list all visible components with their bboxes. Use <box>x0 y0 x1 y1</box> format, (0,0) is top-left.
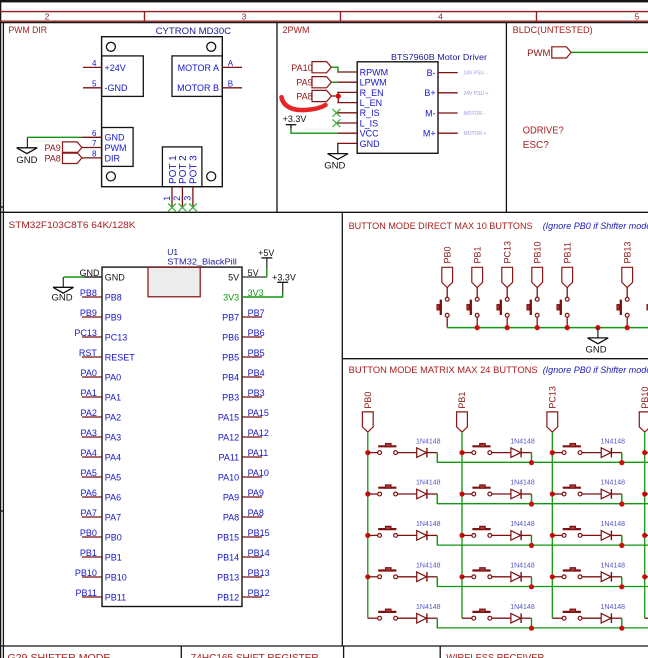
wire: matrix column PB0 <box>367 432 369 618</box>
junction (matrix row bus 5) <box>529 626 534 631</box>
wire: direct button common bus <box>447 327 648 329</box>
junction (matrix col 4 row 1) <box>642 450 647 455</box>
wire PWM to right edge <box>571 51 648 53</box>
no-connect X pin3 <box>189 204 197 212</box>
wire diode to row bus (r4c2) <box>521 576 531 578</box>
svg-text:PB10: PB10 <box>640 387 648 409</box>
diode 1N4148 (r5c2) <box>511 613 521 623</box>
junction (matrix col 4 row 3) <box>642 533 647 538</box>
wire diode to row bus (r3c1) <box>427 534 437 536</box>
section border: left edge <box>2 22 4 658</box>
svg-text:PB0: PB0 <box>105 532 122 542</box>
svg-text:PB4: PB4 <box>248 368 265 378</box>
junction (matrix col 1 row 2) <box>365 491 370 496</box>
wire switch to diode (r5c1) <box>398 617 417 619</box>
wire diode to row bus (r5c2) <box>521 617 531 619</box>
no-connect X R_IS <box>333 109 341 117</box>
pin PA9 (right row 11) <box>242 496 262 498</box>
svg-text:PA12: PA12 <box>218 432 239 442</box>
pin B+ <box>438 92 458 94</box>
wire diode to row bus (r3c3) <box>611 534 621 536</box>
svg-text:PB8: PB8 <box>105 292 122 302</box>
svg-text:R_IS: R_IS <box>360 108 380 118</box>
pin PB14 (right row 14) <box>242 556 262 558</box>
junction (matrix col 3 row 1) <box>550 450 555 455</box>
diode 1N4148 (r4c3) <box>601 572 611 582</box>
svg-text:RST: RST <box>79 348 98 358</box>
junction (direct bus) <box>625 325 630 330</box>
svg-text:1N4148: 1N4148 <box>416 521 441 528</box>
svg-text:PA8: PA8 <box>296 91 312 101</box>
frame tick between zones 3/4 <box>340 12 342 22</box>
svg-text:BTS7960B Motor Driver: BTS7960B Motor Driver <box>391 52 487 62</box>
pin 8 (DIR) <box>82 157 102 159</box>
svg-text:PA0: PA0 <box>105 372 121 382</box>
wire PA8 to R_EN/L_EN tie <box>331 92 338 102</box>
svg-text:PB14: PB14 <box>217 552 239 562</box>
svg-text:RESET: RESET <box>105 352 136 362</box>
pin RESET (left row 4) <box>82 356 102 358</box>
svg-text:PA6: PA6 <box>105 492 121 502</box>
junction (matrix col 1 row 4) <box>365 574 370 579</box>
junction (matrix col 2 row 1) <box>459 450 464 455</box>
pin PB4 (right row 5) <box>242 376 262 378</box>
wire switch to bus PB0 <box>446 317 448 327</box>
wire diode to row bus (r2c3) <box>611 493 621 495</box>
svg-text:PB13: PB13 <box>217 572 239 582</box>
svg-text:BLDC(UNTESTED): BLDC(UNTESTED) <box>513 25 593 35</box>
diode 1N4148 (r4c1) <box>417 572 427 582</box>
wire switch to diode (r4c2) <box>492 576 511 578</box>
section divider horizontal top/middle <box>0 211 648 213</box>
wire 3V3 to +3.3V <box>242 293 283 297</box>
svg-text:(Ignore PB0 if Shifter mode us: (Ignore PB0 if Shifter mode used) <box>543 365 648 375</box>
svg-text:PB12: PB12 <box>248 588 270 598</box>
svg-text:M+: M+ <box>423 129 436 139</box>
junction PA8/R_EN/L_EN <box>336 94 341 99</box>
svg-text:B-: B- <box>427 68 436 78</box>
switch SW (direct PB11) <box>565 297 569 301</box>
svg-text:2: 2 <box>45 12 50 22</box>
svg-text:PB5: PB5 <box>222 352 239 362</box>
svg-text:PWM: PWM <box>527 48 550 59</box>
diode 1N4148 (r4c2) <box>511 572 521 582</box>
frame tick between zones 2/3 <box>144 12 146 22</box>
pin PB11 (left row 16) <box>82 596 102 598</box>
svg-text:5: 5 <box>92 79 97 88</box>
svg-text:PA10: PA10 <box>291 63 312 73</box>
mounting hole bottom-right <box>207 172 216 181</box>
svg-text:PB15: PB15 <box>217 532 239 542</box>
svg-text:PA5: PA5 <box>105 472 121 482</box>
wire label to switch PB1 <box>476 288 478 298</box>
svg-text:1N4148: 1N4148 <box>601 480 626 487</box>
svg-text:1N4148: 1N4148 <box>510 480 535 487</box>
svg-text:GND: GND <box>105 272 126 282</box>
switch SW (direct PB13) <box>625 297 629 301</box>
wire: matrix column PB10 <box>644 432 646 618</box>
wire label to switch PB11 <box>566 288 568 298</box>
pin 7 (PWM) <box>82 147 102 149</box>
wire switch to bus PB10 <box>536 317 538 327</box>
pin PB1 (left row 14) <box>82 556 102 558</box>
svg-text:PC13: PC13 <box>502 241 512 264</box>
svg-text:PA6: PA6 <box>81 488 97 498</box>
junction (matrix row bus 4) <box>619 584 624 589</box>
svg-text:PB10: PB10 <box>75 568 97 578</box>
diode 1N4148 (r2c1) <box>417 489 427 499</box>
svg-text:+3.3V: +3.3V <box>283 114 307 124</box>
pin R_EN <box>337 91 357 93</box>
svg-text:PB14: PB14 <box>248 548 270 558</box>
svg-text:PB11: PB11 <box>105 592 126 602</box>
wire: matrix column PC13 <box>551 432 553 618</box>
ground symbol (BTS7960B) <box>328 154 349 160</box>
svg-text:GND: GND <box>360 139 381 149</box>
wire switch to bus PC13 <box>506 317 508 327</box>
wire diode to row bus (r4c3) <box>611 576 621 578</box>
pin PB15 (right row 13) <box>242 536 262 538</box>
svg-text:PA9: PA9 <box>296 78 312 88</box>
wire switch to diode (r3c3) <box>582 534 601 536</box>
section divider bottom vertical 2 <box>439 646 441 658</box>
mounting hole top-right <box>207 42 216 51</box>
svg-text:24V PSU +: 24V PSU + <box>464 91 489 97</box>
svg-text:PB7: PB7 <box>222 312 239 322</box>
wire switch to bus PB1 <box>476 317 478 327</box>
svg-text:PB13: PB13 <box>622 241 632 263</box>
svg-text:PB0: PB0 <box>442 246 452 263</box>
diode 1N4148 (r3c3) <box>601 531 611 541</box>
svg-text:PB7: PB7 <box>248 308 265 318</box>
svg-text:1N4148: 1N4148 <box>416 480 441 487</box>
mounting hole top-left <box>106 42 115 51</box>
diode 1N4148 (r1c2) <box>511 448 521 458</box>
svg-text:1N4148: 1N4148 <box>510 604 535 611</box>
no-connect X pin1 <box>168 204 176 212</box>
svg-text:3: 3 <box>242 12 247 22</box>
section divider bottom vertical mid <box>343 646 345 658</box>
svg-text:ODRIVE?: ODRIVE? <box>523 126 564 137</box>
svg-text:PA1: PA1 <box>105 392 121 402</box>
pin PB3 (right row 6) <box>242 396 262 398</box>
svg-text:7: 7 <box>92 139 97 148</box>
junction (matrix row bus 3) <box>529 543 534 548</box>
wire diode to row bus (r1c3) <box>611 452 621 454</box>
svg-text:PWM DIR: PWM DIR <box>9 25 48 35</box>
junction (matrix row bus 1) <box>529 460 534 465</box>
wire switch to diode (r3c1) <box>398 534 417 536</box>
left frame tick A <box>0 206 3 208</box>
junction (matrix row bus 2) <box>529 501 534 506</box>
pin VCC <box>337 132 357 134</box>
svg-text:CYTRON MD30C: CYTRON MD30C <box>156 26 232 37</box>
svg-text:MOTOR +: MOTOR + <box>464 131 487 137</box>
junction (matrix col 4 row 4) <box>642 574 647 579</box>
motor driver BTS7960B body <box>357 62 438 154</box>
svg-text:2PWM: 2PWM <box>283 25 310 35</box>
wire switch to diode (r4c1) <box>398 576 417 578</box>
section divider PWM DIR / 2PWM <box>276 23 278 213</box>
junction (matrix col 2 row 4) <box>459 574 464 579</box>
junction (direct bus) <box>565 325 570 330</box>
pin PA15 (right row 7) <box>242 416 262 418</box>
svg-text:RPWM: RPWM <box>360 67 389 77</box>
svg-text:PA2: PA2 <box>81 408 97 418</box>
junction (matrix row bus 4) <box>529 584 534 589</box>
pin PA4 (left row 9) <box>82 456 102 458</box>
svg-text:BUTTON MODE MATRIX MAX 24 BUTT: BUTTON MODE MATRIX MAX 24 BUTTONS <box>349 365 538 375</box>
pin PA2 (left row 7) <box>82 416 102 418</box>
wire switch to diode (r4c3) <box>582 576 601 578</box>
pin PA1 (left row 6) <box>82 396 102 398</box>
svg-text:L_IS: L_IS <box>360 118 379 128</box>
svg-text:+3.3V: +3.3V <box>272 272 296 282</box>
svg-text:STM32F103C8T6 64K/128K: STM32F103C8T6 64K/128K <box>9 220 136 230</box>
svg-text:PA7: PA7 <box>81 508 97 518</box>
svg-text:MOTOR B: MOTOR B <box>177 83 219 93</box>
svg-text:PA12: PA12 <box>248 428 269 438</box>
mounting hole bottom-left <box>106 172 115 181</box>
pin LPWM <box>337 81 357 83</box>
svg-text:24V PSU -: 24V PSU - <box>464 71 488 77</box>
svg-text:PB11: PB11 <box>562 242 572 263</box>
wire label to switch PB10 <box>536 288 538 298</box>
pin PC13 (left row 3) <box>82 336 102 338</box>
svg-text:1: 1 <box>162 196 172 201</box>
svg-text:LPWM: LPWM <box>360 78 387 88</box>
svg-text:74HC165 SHIFT REGISTER: 74HC165 SHIFT REGISTER <box>191 653 319 658</box>
svg-text:PA4: PA4 <box>105 452 121 462</box>
junction (direct bus) <box>595 325 600 330</box>
pin PA10 (right row 10) <box>242 476 262 478</box>
svg-text:(Ignore PB0 if Shifter mode us: (Ignore PB0 if Shifter mode used) <box>543 221 648 231</box>
pin PA3 (left row 8) <box>82 436 102 438</box>
pin PB0 (left row 13) <box>82 536 102 538</box>
svg-text:POT 3: POT 3 <box>188 155 199 184</box>
wire switch to diode (r2c3) <box>582 493 601 495</box>
power terminal block +24V/-GND <box>102 56 144 97</box>
svg-text:PA9: PA9 <box>44 143 60 153</box>
svg-text:PA11: PA11 <box>248 448 269 458</box>
svg-text:PB9: PB9 <box>105 312 122 322</box>
pin A (MOTOR A) <box>222 66 242 68</box>
wire: matrix row bus 5 <box>437 627 648 629</box>
svg-text:PB12: PB12 <box>217 592 239 602</box>
svg-text:PA9: PA9 <box>223 492 239 502</box>
pin PB13 (right row 15) <box>242 576 262 578</box>
switch SW (matrix r5c2) <box>462 617 472 619</box>
svg-text:PB9: PB9 <box>80 308 97 318</box>
svg-text:GND: GND <box>16 155 37 166</box>
junction (matrix col 4 row 2) <box>642 491 647 496</box>
pin PA5 (left row 10) <box>82 476 102 478</box>
motor terminal block MOTOR A/MOTOR B <box>172 56 222 97</box>
diode 1N4148 (r1c3) <box>601 448 611 458</box>
svg-text:3V3: 3V3 <box>223 292 239 302</box>
left frame tick B <box>0 510 3 512</box>
svg-text:1N4148: 1N4148 <box>601 438 626 445</box>
diode 1N4148 (r5c1) <box>417 613 427 623</box>
wire: matrix row bus 3 <box>437 544 648 546</box>
svg-text:5: 5 <box>635 12 640 22</box>
wire diode to row bus (r2c2) <box>521 493 531 495</box>
svg-text:-GND: -GND <box>105 83 128 93</box>
junction (matrix col 1 row 1) <box>365 450 370 455</box>
svg-text:1N4148: 1N4148 <box>601 604 626 611</box>
motor driver CYTRON MD30C body <box>102 37 223 187</box>
wire 5V to +5V <box>242 276 267 278</box>
svg-text:PB5: PB5 <box>248 348 265 358</box>
svg-text:GND: GND <box>51 293 72 304</box>
svg-text:PB4: PB4 <box>222 372 239 382</box>
wire: matrix row bus 1 <box>437 461 648 463</box>
svg-text:PA8: PA8 <box>44 153 60 163</box>
junction (matrix col 3 row 2) <box>550 491 555 496</box>
junction (matrix col 2 row 2) <box>459 491 464 496</box>
switch SW (direct PB1) <box>475 297 479 301</box>
svg-text:+24V: +24V <box>105 63 126 73</box>
svg-text:PA3: PA3 <box>105 432 121 442</box>
svg-text:WIRELESS RECEIVER: WIRELESS RECEIVER <box>446 653 544 658</box>
diode 1N4148 (r3c1) <box>417 531 427 541</box>
svg-text:MOTOR A: MOTOR A <box>178 63 219 73</box>
wire switch to diode (r1c1) <box>398 452 417 454</box>
svg-text:PC13: PC13 <box>105 332 128 342</box>
pin 2 (POT2) <box>181 187 183 208</box>
svg-text:PA4: PA4 <box>81 448 97 458</box>
pin B- <box>438 72 458 74</box>
wire switch to bus PB13 <box>626 317 628 327</box>
pin 6 (GND) <box>82 136 102 138</box>
svg-text:PA15: PA15 <box>248 408 269 418</box>
svg-text:ESC?: ESC? <box>523 140 550 151</box>
svg-text:BUTTON MODE DIRECT MAX 10 BUTT: BUTTON MODE DIRECT MAX 10 BUTTONS <box>349 221 533 231</box>
svg-text:PA2: PA2 <box>105 412 121 422</box>
svg-text:GND: GND <box>324 160 345 171</box>
svg-text:1N4148: 1N4148 <box>416 604 441 611</box>
svg-text:R_EN: R_EN <box>360 88 384 98</box>
mcu module body U1 <box>102 267 242 606</box>
svg-text:PC13: PC13 <box>548 386 558 409</box>
power symbol +5V <box>261 257 272 259</box>
svg-text:1N4148: 1N4148 <box>601 563 626 570</box>
ground symbol (direct bus) <box>588 338 609 344</box>
pin 4 (+24V) <box>83 66 102 68</box>
switch SW (matrix r5c4) <box>645 617 648 619</box>
junction (matrix col 3 row 3) <box>550 533 555 538</box>
diode 1N4148 (r3c2) <box>511 531 521 541</box>
wire diode to row bus (r3c2) <box>521 534 531 536</box>
junction (direct bus) <box>475 325 480 330</box>
pin 3 (POT3) <box>192 187 194 208</box>
switch SW (direct PB0) <box>445 297 449 301</box>
svg-text:4: 4 <box>438 12 443 22</box>
svg-text:DIR: DIR <box>105 153 121 163</box>
wire switch to diode (r2c2) <box>492 493 511 495</box>
svg-text:GND: GND <box>80 268 101 278</box>
junction (matrix row bus 5) <box>619 626 624 631</box>
no-connect X pin2 <box>179 204 187 212</box>
pin M- <box>438 112 458 114</box>
svg-text:6: 6 <box>92 129 97 138</box>
pin PA8 (right row 12) <box>242 516 262 518</box>
annotation red scribble <box>282 97 326 110</box>
svg-text:PA0: PA0 <box>81 368 97 378</box>
svg-text:B: B <box>228 79 233 88</box>
wire: matrix row bus 4 <box>437 586 648 588</box>
svg-text:1N4148: 1N4148 <box>416 438 441 445</box>
wire switch to bus PB11 <box>566 317 568 327</box>
diode 1N4148 (r1c1) <box>417 448 427 458</box>
pin PA0 (left row 5) <box>82 376 102 378</box>
svg-text:PB1: PB1 <box>80 548 97 558</box>
svg-text:1N4148: 1N4148 <box>416 563 441 570</box>
pin PA12 (right row 8) <box>242 436 262 438</box>
svg-text:PB1: PB1 <box>457 392 467 409</box>
junction (matrix row bus 3) <box>619 543 624 548</box>
wire switch to diode (r2c1) <box>398 493 417 495</box>
section border: top edge <box>0 22 648 24</box>
junction (matrix col 3 row 4) <box>550 574 555 579</box>
svg-text:G29 SHIFTER MODE: G29 SHIFTER MODE <box>8 653 111 658</box>
ground symbol (Cytron) <box>17 148 38 154</box>
svg-text:PA10: PA10 <box>218 472 239 482</box>
wire diode to row bus (r1c1) <box>427 452 437 454</box>
switch SW (direct PB10) <box>535 297 539 301</box>
wire label to switch PB0 <box>446 288 448 298</box>
svg-text:PB11: PB11 <box>76 588 97 598</box>
section divider 2PWM / BLDC <box>505 23 507 213</box>
pin PB5 (right row 4) <box>242 356 262 358</box>
svg-text:PB6: PB6 <box>248 328 265 338</box>
svg-text:+5V: +5V <box>258 248 274 258</box>
pin B (MOTOR B) <box>222 87 242 89</box>
svg-text:PB13: PB13 <box>248 568 270 578</box>
wire bus to ground <box>597 328 599 338</box>
frame tick between zones 4/5 <box>536 12 538 22</box>
svg-text:PA11: PA11 <box>219 452 240 462</box>
svg-text:PWM: PWM <box>105 143 127 153</box>
svg-text:5V: 5V <box>248 268 259 278</box>
junction (matrix col 2 row 3) <box>459 533 464 538</box>
power symbol +3.3V <box>277 281 288 283</box>
wire label to switch PB13 <box>626 288 628 298</box>
svg-text:PB3: PB3 <box>222 392 239 402</box>
pin 1 (POT1) <box>171 187 173 208</box>
svg-text:PB0: PB0 <box>80 528 97 538</box>
svg-text:PA9: PA9 <box>248 488 264 498</box>
wire: matrix column PB1 <box>461 432 463 618</box>
svg-text:PB3: PB3 <box>248 388 265 398</box>
svg-text:PA8: PA8 <box>248 508 264 518</box>
pin PA7 (left row 12) <box>82 516 102 518</box>
diode 1N4148 (r2c2) <box>511 489 521 499</box>
svg-text:1N4148: 1N4148 <box>510 438 535 445</box>
svg-text:PB6: PB6 <box>222 332 239 342</box>
svg-text:1N4148: 1N4148 <box>601 521 626 528</box>
pin RPWM <box>337 71 357 73</box>
pin PB8 (left row 1) <box>82 296 102 298</box>
diode 1N4148 (r5c3) <box>601 613 611 623</box>
wire switch to diode (r1c2) <box>492 452 511 454</box>
svg-text:GND: GND <box>105 133 126 143</box>
svg-text:8: 8 <box>92 149 97 158</box>
pin GND <box>337 142 357 144</box>
svg-text:PB1: PB1 <box>472 246 482 263</box>
wire label to switch PC13 <box>506 288 508 298</box>
wire diode to row bus (r4c1) <box>427 576 437 578</box>
